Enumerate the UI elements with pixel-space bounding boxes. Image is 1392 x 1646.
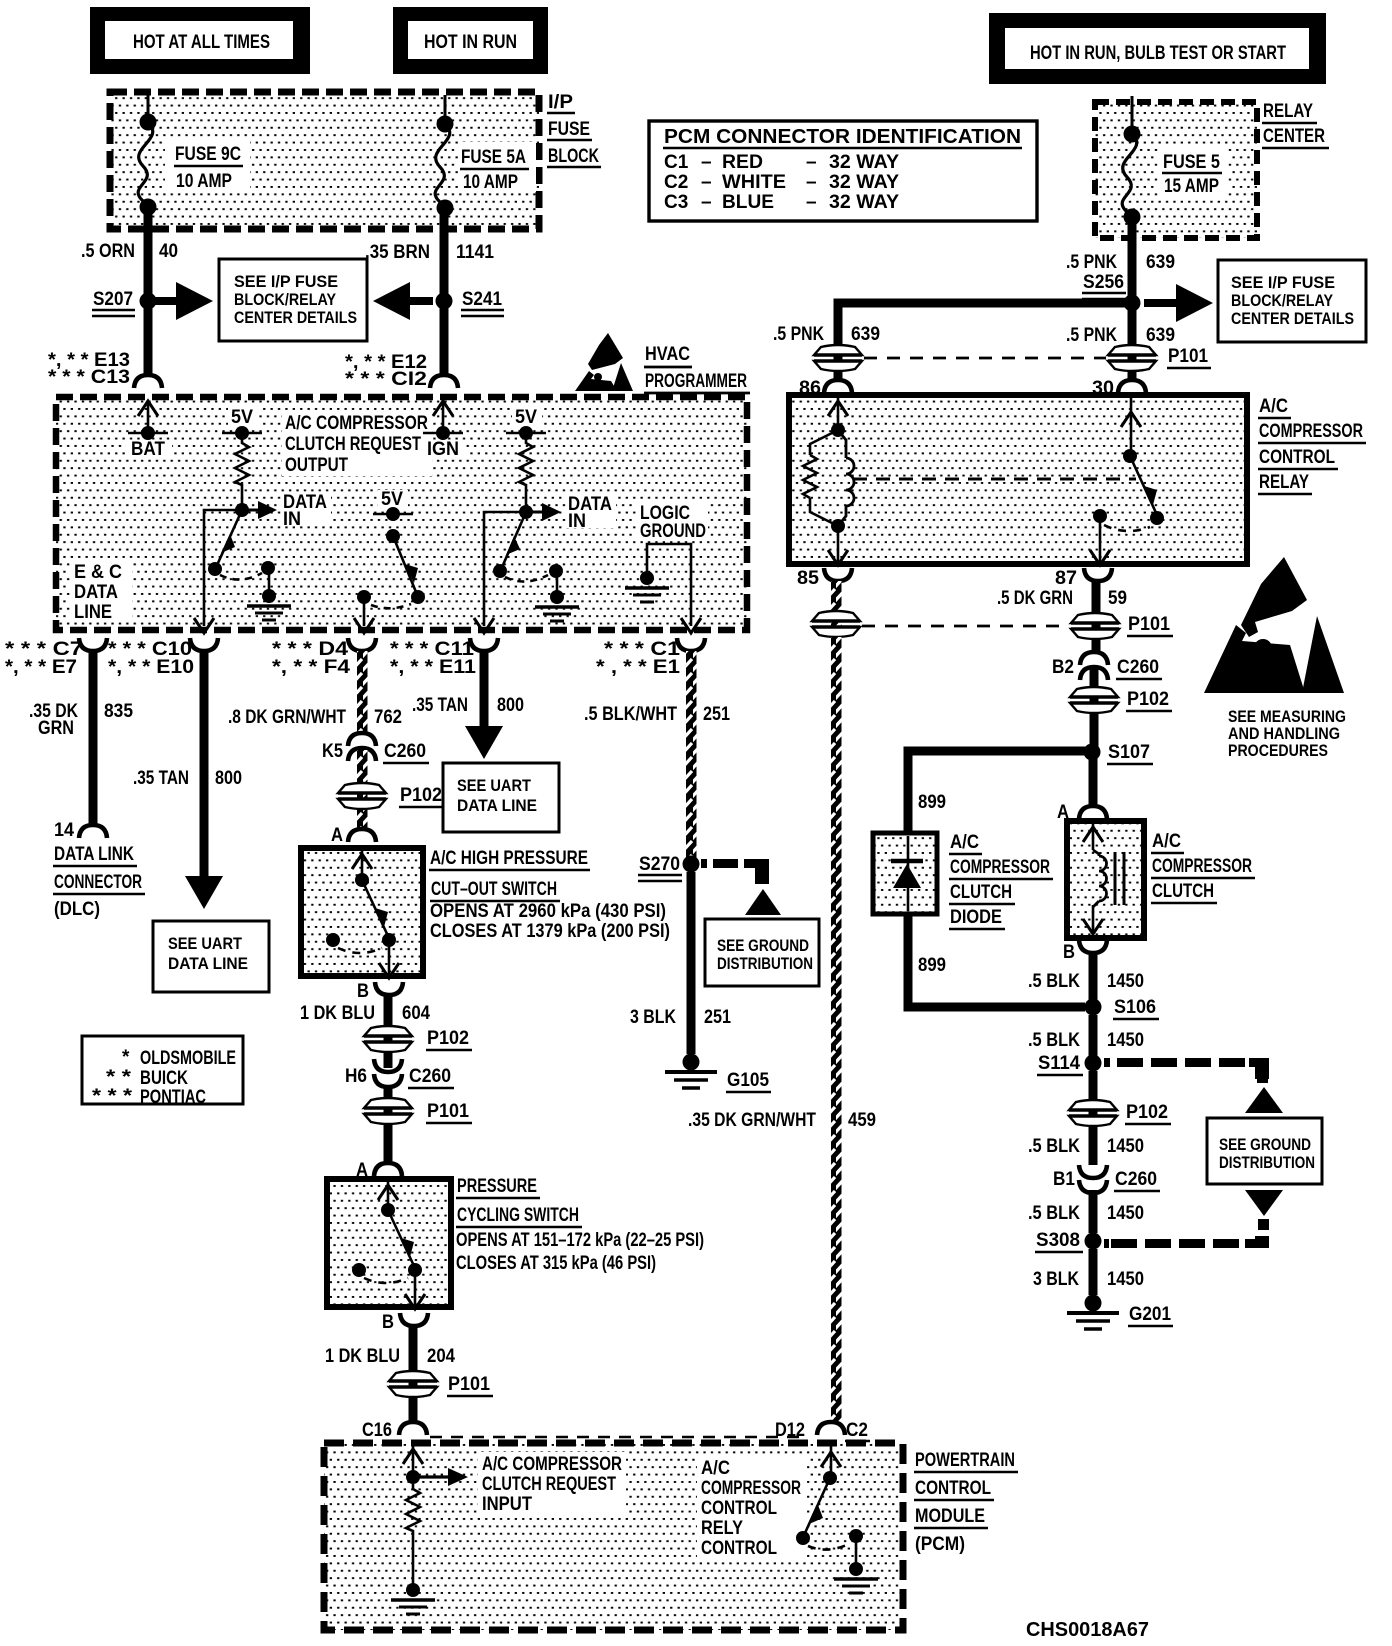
A/C compressor control relay box (789, 395, 1247, 564)
node pin 87 (1055, 568, 1112, 589)
node C1/E1 (596, 638, 705, 678)
svg-text:CENTER DETAILS: CENTER DETAILS (234, 308, 357, 327)
wire branch S256 to relay pin 86 (838, 303, 1132, 380)
svg-text:.5 PNK: .5 PNK (1066, 325, 1117, 346)
svg-text:1 DK BLU: 1 DK BLU (325, 1346, 400, 1367)
svg-text:–: – (701, 172, 712, 193)
box SEE UART DATA LINE (right) (443, 763, 559, 832)
svg-text:BLUE: BLUE (722, 192, 774, 213)
I/P fuse block box (110, 92, 539, 229)
svg-text:B: B (1063, 942, 1075, 963)
node pin B (clutch) (1063, 940, 1107, 963)
box SEE UART DATA LINE (left) (153, 921, 269, 992)
svg-text:S270: S270 (639, 854, 680, 875)
wire .5 BLK/WHT 251 (hatched) (584, 651, 730, 859)
svg-text:899: 899 (918, 792, 946, 813)
label SEE MEASURING AND HANDLING PROCEDURES (1228, 707, 1346, 760)
svg-text:A/C COMPRESSOR: A/C COMPRESSOR (285, 413, 428, 434)
svg-text:RED: RED (722, 152, 763, 173)
wire to P102 (hatched) (357, 750, 368, 830)
svg-text:BLOCK: BLOCK (548, 146, 599, 167)
svg-text:A/C: A/C (1152, 831, 1181, 852)
splice S106 (1085, 997, 1160, 1019)
svg-text:CYCLING SWITCH: CYCLING SWITCH (457, 1205, 579, 1226)
svg-text:G201: G201 (1129, 1304, 1171, 1325)
svg-text:85: 85 (797, 568, 819, 589)
svg-text:1450: 1450 (1107, 1136, 1144, 1157)
svg-text:32 WAY: 32 WAY (829, 152, 899, 173)
svg-text:1450: 1450 (1107, 1203, 1144, 1224)
HVAC pin IGN (423, 400, 466, 460)
label I/P FUSE BLOCK (547, 92, 601, 167)
svg-text:604: 604 (402, 1003, 430, 1024)
svg-text:SEE UART: SEE UART (168, 934, 243, 953)
label LOGIC GROUND (636, 502, 708, 542)
svg-text:A/C: A/C (701, 1458, 730, 1479)
wire 3 BLK 251 (630, 872, 731, 1054)
svg-text:P102: P102 (427, 1028, 469, 1049)
node C10/E10 (108, 638, 218, 678)
node pin 85 (797, 568, 852, 589)
svg-text:B: B (357, 981, 369, 1002)
svg-text:OPENS AT 151–172 kPa (22–25 PS: OPENS AT 151–172 kPa (22–25 PSI) (456, 1230, 704, 1251)
ESD symbol large (1204, 557, 1344, 693)
svg-text:PRESSURE: PRESSURE (457, 1176, 537, 1197)
wire .5 BLK 1450 (clutch B to S106) (1028, 953, 1144, 1000)
node E12/C12 (345, 352, 458, 390)
wire P101 to C16 (409, 1397, 418, 1421)
svg-text:SEE I/P FUSE: SEE I/P FUSE (1231, 273, 1335, 292)
ground G201 (1067, 1295, 1173, 1330)
svg-text:BLOCK/RELAY: BLOCK/RELAY (1231, 291, 1334, 310)
labels PRESSURE CYCLING SWITCH (456, 1176, 704, 1274)
svg-text:OLDSMOBILE: OLDSMOBILE (140, 1048, 236, 1069)
svg-text:32 WAY: 32 WAY (829, 192, 899, 213)
svg-text:–: – (806, 152, 817, 173)
svg-text:* * *: * * * (92, 1086, 133, 1107)
svg-text:C3: C3 (664, 192, 688, 213)
node C11/E11 (390, 638, 498, 678)
labels A/C COMPRESSOR CLUTCH DIODE (949, 832, 1053, 929)
HVAC 5V pullup (left channel) (222, 407, 262, 509)
wire .5 ORN 40 (144, 209, 153, 377)
svg-text:S256: S256 (1083, 272, 1124, 293)
wire fuse 5 feed stub (1131, 96, 1134, 134)
svg-text:*, * * E7: *, * * E7 (5, 657, 77, 678)
svg-text:–: – (701, 192, 712, 213)
svg-text:251: 251 (703, 704, 730, 725)
powertrain control module box (324, 1443, 903, 1630)
svg-text:HOT AT ALL TIMES: HOT AT ALL TIMES (133, 32, 270, 53)
svg-text:S114: S114 (1038, 1053, 1080, 1074)
svg-text:639: 639 (851, 324, 880, 345)
svg-text:800: 800 (497, 695, 524, 716)
svg-text:*, * * E11: *, * * E11 (390, 657, 476, 678)
wire fuse 5A feed stub (444, 95, 447, 124)
label HVAC PROGRAMMER (641, 340, 751, 393)
splice S207 (92, 289, 157, 316)
fuse F5A (435, 116, 536, 217)
svg-text:PONTIAC: PONTIAC (140, 1087, 206, 1108)
svg-text:P101: P101 (1128, 614, 1170, 635)
relay internal dashed link (853, 478, 1136, 481)
wire 899 branch to diode (908, 751, 1092, 833)
svg-text:A/C: A/C (1259, 396, 1288, 417)
svg-text:COMPRESSOR: COMPRESSOR (701, 1478, 801, 1499)
label A/C COMPRESSOR CONTROL RELY CONTROL (697, 1456, 807, 1560)
svg-text:A/C COMPRESSOR: A/C COMPRESSOR (482, 1454, 622, 1475)
right channel switch to ground (493, 512, 579, 621)
label A/C COMPRESSOR CLUTCH REQUEST OUTPUT (282, 412, 432, 476)
node pin B (cycling switch) (382, 1312, 428, 1333)
wire 1 DK BLU 204 (325, 1326, 455, 1400)
svg-text:.5 BLK: .5 BLK (1028, 971, 1080, 992)
HVAC programmer box (56, 397, 747, 630)
label box HOT IN RUN, BULB TEST OR START (989, 13, 1326, 84)
box SEE I/P FUSE BLOCK/RELAY CENTER DETAILS (right) (1218, 260, 1366, 342)
svg-text:CONTROL: CONTROL (701, 1498, 777, 1519)
svg-text:*, * * F4: *, * * F4 (272, 657, 350, 678)
svg-text:CONTROL: CONTROL (915, 1478, 991, 1499)
svg-text:CHS0018A67: CHS0018A67 (1026, 1619, 1149, 1641)
svg-text:204: 204 (427, 1346, 455, 1367)
svg-text:.5 PNK: .5 PNK (1066, 252, 1117, 273)
svg-text:G105: G105 (727, 1070, 769, 1091)
svg-text:.5 PNK: .5 PNK (773, 324, 824, 345)
wire B2 to S107 (1090, 667, 1099, 748)
svg-text:CONTROL: CONTROL (1259, 447, 1335, 468)
svg-text:* *: * * (106, 1067, 132, 1088)
svg-text:(DLC): (DLC) (54, 899, 100, 920)
svg-text:CLOSES AT 315 kPa (46 PSI): CLOSES AT 315 kPa (46 PSI) (456, 1253, 656, 1274)
fuse F5 (1122, 126, 1228, 226)
wire 899 from diode to S106 (908, 914, 1085, 1007)
dashed branch S270 to ground distribution note (701, 859, 781, 915)
svg-text:.5 BLK: .5 BLK (1028, 1136, 1080, 1157)
svg-text:C2: C2 (846, 1420, 868, 1441)
svg-text:FUSE: FUSE (548, 119, 590, 140)
svg-text:MODULE: MODULE (915, 1506, 985, 1527)
node pin A (cycling switch) (356, 1160, 402, 1181)
splice S114 (1037, 1053, 1102, 1075)
svg-text:32 WAY: 32 WAY (829, 172, 899, 193)
ground G105 (665, 1054, 771, 1093)
wire fuse 9C feed stub (147, 95, 150, 121)
svg-text:.5 BLK: .5 BLK (1028, 1030, 1080, 1051)
relay center fuse box (1095, 102, 1257, 238)
wire .5 BLK 1450 (P102 to B1) (1028, 1126, 1144, 1165)
label RELAY CENTER (1262, 101, 1329, 148)
svg-text:INPUT: INPUT (482, 1494, 532, 1515)
svg-text:GROUND: GROUND (640, 521, 706, 542)
splice S256 (1082, 272, 1141, 312)
svg-text:P102: P102 (400, 785, 442, 806)
svg-text:.35 TAN: .35 TAN (412, 695, 468, 716)
svg-text:PROGRAMMER: PROGRAMMER (645, 371, 747, 392)
svg-text:639: 639 (1146, 325, 1175, 346)
svg-text:.8 DK GRN/WHT: .8 DK GRN/WHT (228, 707, 346, 728)
wire S256 down to P101 (1128, 311, 1137, 380)
svg-text:LINE: LINE (74, 602, 112, 623)
svg-text:D12: D12 (775, 1420, 805, 1441)
legend box oldsmobile/buick/pontiac (82, 1036, 243, 1108)
svg-text:COMPRESSOR: COMPRESSOR (1152, 856, 1252, 877)
svg-text:B: B (382, 1312, 394, 1333)
node pin A (cut-out switch) (331, 825, 376, 846)
grommet P101 (1108, 345, 1211, 371)
label A/C COMPRESSOR CLUTCH REQUEST INPUT (478, 1452, 626, 1516)
svg-text:1450: 1450 (1107, 1030, 1144, 1051)
connector B1 C260 (1053, 1165, 1160, 1193)
svg-text:WHITE: WHITE (722, 172, 786, 193)
svg-text:COMPRESSOR: COMPRESSOR (1259, 421, 1363, 442)
svg-text:BUICK: BUICK (140, 1068, 188, 1089)
svg-text:B1: B1 (1053, 1169, 1075, 1190)
svg-text:OUTPUT: OUTPUT (285, 455, 348, 476)
arrow from S241 to details box (373, 282, 433, 320)
right channel data junction and DATA IN arrow (519, 494, 616, 532)
relay switch (1090, 398, 1164, 565)
svg-text:SEE UART: SEE UART (457, 776, 532, 795)
svg-text:HVAC: HVAC (645, 344, 690, 365)
svg-text:RELAY: RELAY (1263, 101, 1313, 122)
wire from pin 85 (hatched) to grommet (831, 581, 842, 637)
connector B2 C260 (1052, 652, 1162, 680)
svg-text:A/C: A/C (950, 832, 979, 853)
svg-text:*: * (122, 1047, 130, 1068)
svg-text:FUSE 9C: FUSE 9C (175, 144, 241, 165)
svg-text:DATA: DATA (74, 582, 118, 603)
PCM connector identification box (649, 121, 1037, 221)
wire 1 DK BLU 604 (300, 995, 430, 1068)
node pin C16 (362, 1420, 805, 1441)
wire .8 DK GRN/WHT 762 (hatched) (228, 651, 402, 733)
svg-text:P102: P102 (1126, 1102, 1168, 1123)
label box HOT IN RUN (393, 7, 548, 74)
logic ground bracket and symbol (625, 544, 701, 633)
svg-text:E & C: E & C (74, 562, 122, 583)
svg-text:HOT IN RUN: HOT IN RUN (424, 32, 517, 53)
svg-text:CONNECTOR: CONNECTOR (54, 872, 142, 893)
grommet P100 left of relay (814, 345, 862, 371)
dashed grommet link lower (862, 625, 1068, 628)
svg-text:RELY: RELY (701, 1518, 743, 1539)
ESD symbol small (575, 333, 633, 391)
grommet on firewall (85 side) (812, 611, 860, 637)
node pin D12 / C2 (775, 1420, 870, 1441)
svg-text:835: 835 (104, 701, 133, 722)
svg-text:DATA LINE: DATA LINE (457, 796, 537, 815)
box SEE I/P FUSE BLOCK/RELAY CENTER DETAILS (left) (219, 259, 367, 341)
svg-text:COMPRESSOR: COMPRESSOR (950, 857, 1050, 878)
svg-text:* * * C13: * * * C13 (48, 367, 130, 388)
label E & C DATA LINE (70, 558, 132, 623)
grommet P102 (338, 783, 445, 809)
svg-text:5V: 5V (231, 407, 253, 428)
svg-text:1141: 1141 (456, 242, 494, 263)
svg-text:S207: S207 (93, 289, 133, 310)
svg-text:639: 639 (1146, 252, 1175, 273)
svg-text:SEE GROUND: SEE GROUND (1219, 1135, 1311, 1154)
fuse F9C (138, 114, 250, 216)
svg-text:POWERTRAIN: POWERTRAIN (915, 1450, 1015, 1471)
svg-text:5V: 5V (381, 489, 403, 510)
A/C high pressure cut-out switch (301, 848, 423, 978)
data link connector DLC (53, 820, 145, 920)
node C7/E7 (5, 638, 107, 678)
HVAC pin BAT (126, 400, 172, 460)
svg-text:C260: C260 (384, 741, 426, 762)
grommet P102 (second) (364, 1026, 472, 1052)
svg-text:P101: P101 (1168, 346, 1208, 367)
svg-text:800: 800 (215, 768, 242, 789)
svg-text:10 AMP: 10 AMP (176, 171, 232, 192)
arrow from S256 to details box (1144, 299, 1153, 307)
svg-text:1450: 1450 (1107, 1269, 1144, 1290)
A/C compressor clutch box (1067, 821, 1144, 938)
svg-text:459: 459 (848, 1110, 876, 1131)
svg-text:HOT IN RUN, BULB TEST OR START: HOT IN RUN, BULB TEST OR START (1030, 43, 1286, 64)
node pin B (cut-out switch) (357, 981, 403, 1002)
svg-text:.5 ORN: .5 ORN (81, 241, 135, 262)
svg-text:14: 14 (54, 820, 74, 841)
grommet P102 (right column) (1070, 687, 1172, 713)
PCM relay control driver (796, 1446, 878, 1593)
svg-text:59: 59 (1108, 588, 1127, 609)
HVAC 5V pullup (right channel) (506, 407, 546, 511)
svg-text:P102: P102 (1127, 689, 1169, 710)
svg-text:CLUTCH: CLUTCH (1152, 881, 1214, 902)
svg-text:762: 762 (374, 707, 402, 728)
svg-text:CUT–OUT SWITCH: CUT–OUT SWITCH (431, 879, 557, 900)
svg-text:P101: P101 (448, 1374, 490, 1395)
svg-text:SEE GROUND: SEE GROUND (717, 936, 809, 955)
relay coil (803, 398, 854, 565)
svg-text:RELAY: RELAY (1259, 472, 1309, 493)
splice S107 (1084, 742, 1154, 764)
svg-text:.5 BLK/WHT: .5 BLK/WHT (584, 704, 677, 725)
svg-text:3 BLK: 3 BLK (630, 1007, 676, 1028)
svg-text:40: 40 (159, 241, 178, 262)
svg-text:B2: B2 (1052, 657, 1074, 678)
svg-text:899: 899 (918, 955, 946, 976)
box SEE GROUND DISTRIBUTION (right) (1207, 1118, 1322, 1184)
svg-text:CLOSES AT 1379 kPa (200 PSI): CLOSES AT 1379 kPa (200 PSI) (430, 921, 670, 942)
svg-text:DISTRIBUTION: DISTRIBUTION (1219, 1153, 1315, 1172)
box SEE GROUND DISTRIBUTION (middle) (705, 919, 819, 986)
svg-text:CLUTCH REQUEST: CLUTCH REQUEST (285, 434, 421, 455)
node E13/C13 (48, 350, 162, 388)
right channel output wire to C11 (474, 512, 526, 633)
svg-text:DISTRIBUTION: DISTRIBUTION (717, 954, 813, 973)
svg-text:I/P: I/P (548, 92, 573, 113)
grommet P101 (third) (389, 1371, 493, 1397)
label POWERTRAIN CONTROL MODULE (PCM) (914, 1450, 1018, 1555)
svg-text:P101: P101 (427, 1101, 469, 1122)
splice S308 (1035, 1230, 1102, 1252)
svg-text:DATA LINK: DATA LINK (54, 844, 134, 865)
wire .5 PNK 639 from fuse 5 (1128, 219, 1137, 340)
svg-text:CLUTCH: CLUTCH (950, 882, 1012, 903)
A/C compressor clutch diode box (873, 833, 937, 914)
svg-text:C260: C260 (1115, 1169, 1157, 1190)
middle channel 5V switch (354, 489, 425, 633)
arrow from S207 to details box (153, 282, 213, 320)
wire S114 to P102 (1089, 1071, 1098, 1130)
svg-text:PCM CONNECTOR IDENTIFICATION: PCM CONNECTOR IDENTIFICATION (664, 126, 1021, 148)
svg-text:C260: C260 (1117, 657, 1159, 678)
svg-text:FUSE 5A: FUSE 5A (461, 147, 526, 168)
left channel data junction and DATA IN arrow (235, 492, 331, 530)
left channel switch to ground (208, 510, 291, 620)
svg-text:DIODE: DIODE (950, 907, 1002, 928)
svg-text:SEE I/P FUSE: SEE I/P FUSE (234, 272, 338, 291)
svg-text:C260: C260 (409, 1066, 451, 1087)
svg-text:H6: H6 (345, 1066, 367, 1087)
svg-text:.35 TAN: .35 TAN (133, 768, 189, 789)
svg-text:IN: IN (568, 511, 586, 532)
wire .5 BLK 1450 (S106 to S114) (1028, 1015, 1144, 1056)
svg-text:1450: 1450 (1107, 971, 1144, 992)
svg-text:87: 87 (1055, 568, 1077, 589)
svg-text:* , * * E1: * , * * E1 (596, 657, 680, 678)
svg-text:*, * * E10: *, * * E10 (108, 657, 194, 678)
svg-text:C2: C2 (664, 172, 688, 193)
svg-text:S308: S308 (1036, 1230, 1080, 1251)
svg-text:251: 251 (704, 1007, 731, 1028)
node D4/F4 (272, 638, 376, 678)
grommet P101 (second) (364, 1098, 472, 1124)
labels A/C HIGH PRESSURE CUT-OUT SWITCH (429, 848, 670, 942)
svg-text:OPENS AT 2960 kPa (430 PSI): OPENS AT 2960 kPa (430 PSI) (430, 901, 666, 922)
dashed grommet link (864, 357, 1106, 360)
labels A/C COMPRESSOR CLUTCH (1151, 831, 1255, 903)
svg-text:IN: IN (283, 509, 301, 530)
svg-text:.5 BLK: .5 BLK (1028, 1203, 1080, 1224)
svg-text:* * * CI2: * * * CI2 (345, 369, 427, 390)
svg-text:.35 DK GRN/WHT: .35 DK GRN/WHT (688, 1110, 816, 1131)
svg-text:5V: 5V (515, 407, 537, 428)
wire .5 DK GRN 59 from pin 87 (997, 581, 1127, 653)
wire .5 BLK 1450 (B1 to S308) (1028, 1190, 1144, 1233)
svg-text:PROCEDURES: PROCEDURES (1228, 741, 1328, 760)
wire .35 TAN 800 with down arrow (C10) (133, 651, 242, 909)
svg-text:CONTROL: CONTROL (701, 1538, 777, 1559)
svg-text:GRN: GRN (38, 718, 74, 739)
dashed branch S114 to ground distribution note (1104, 1058, 1283, 1113)
label A/C COMPRESSOR CONTROL RELAY (1258, 396, 1366, 494)
svg-text:3 BLK: 3 BLK (1033, 1269, 1079, 1290)
wire .35 DK GRN 835 to DLC (29, 651, 133, 827)
connector H6 C260 (345, 1059, 454, 1088)
wire .35 TAN 800 with down arrow (C11) (412, 651, 524, 759)
grommet P102 (lower right) (1069, 1100, 1171, 1126)
svg-text:BAT: BAT (131, 439, 165, 460)
svg-text:.5 DK GRN: .5 DK GRN (997, 588, 1073, 609)
svg-text:(PCM): (PCM) (915, 1534, 965, 1555)
pressure cycling switch (327, 1179, 451, 1309)
svg-text:.35 BRN: .35 BRN (365, 242, 430, 263)
svg-text:10 AMP: 10 AMP (463, 172, 518, 193)
wire H6 to cycling switch pin A (384, 1086, 393, 1162)
PCM clutch request input circuit (391, 1446, 468, 1614)
wire .35 DK GRN/WHT 459 (hatched) (688, 637, 876, 1421)
svg-text:15 AMP: 15 AMP (1164, 176, 1219, 197)
svg-text:S107: S107 (1108, 742, 1150, 763)
svg-text:CENTER DETAILS: CENTER DETAILS (1231, 309, 1354, 328)
splice S270 (638, 854, 700, 881)
svg-text:1 DK BLU: 1 DK BLU (300, 1003, 375, 1024)
